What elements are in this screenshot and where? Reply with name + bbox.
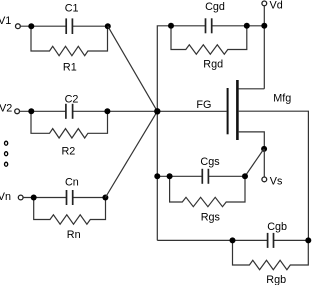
svg-text:V2: V2	[0, 102, 12, 114]
wire Cgs left	[157, 175, 202, 177]
svg-text:Vd: Vd	[270, 0, 283, 12]
junction dot Cgb right	[305, 237, 311, 243]
svg-text:FG: FG	[196, 99, 211, 111]
wire bottom rail to Cgb	[157, 239, 267, 241]
wire Cn right to node	[73, 197, 106, 199]
junction dot Cgd left	[168, 23, 174, 29]
wire Vd down to drain	[263, 6, 265, 89]
wire FG vertical rail	[157, 26, 171, 241]
wire Cgd right to Vd node	[212, 25, 265, 27]
svg-text:Vn: Vn	[0, 191, 11, 203]
resistor Rgd	[171, 26, 247, 54]
terminal Vs	[262, 177, 267, 182]
terminal V1	[16, 24, 21, 29]
svg-text:Vs: Vs	[270, 175, 283, 187]
terminal Vn	[18, 195, 23, 200]
terminal V2	[15, 109, 20, 114]
svg-text:V1: V1	[0, 15, 11, 27]
junction dot Cgb left	[230, 237, 236, 243]
svg-text:R2: R2	[61, 145, 75, 157]
wire diagonal rown to FG node	[105, 111, 157, 197]
junction dot Cgs right	[242, 173, 248, 179]
junction dot FG rail at Cgs	[154, 173, 160, 179]
wire source horizontal and down	[239, 132, 265, 149]
svg-text:Cn: Cn	[65, 177, 79, 189]
svg-text:Rgs: Rgs	[201, 212, 221, 224]
svg-text:Rn: Rn	[67, 229, 81, 241]
svg-text:C1: C1	[65, 2, 79, 14]
svg-text:R1: R1	[63, 61, 77, 73]
wire bulk horizontal and right rail	[239, 111, 309, 240]
wire V2 to C2 left	[20, 110, 66, 112]
wire C1 right to node	[72, 25, 107, 27]
svg-text:Mfg: Mfg	[273, 93, 291, 105]
wire drain horizontal	[239, 88, 265, 90]
junction dot row1 right	[105, 23, 111, 29]
capacitor Cn	[67, 190, 73, 205]
svg-text:C2: C2	[65, 93, 79, 105]
capacitor Cgs	[202, 169, 208, 184]
svg-text:Rgb: Rgb	[266, 274, 286, 285]
terminal Vd	[262, 1, 267, 6]
wire source dot to Vs	[263, 149, 265, 177]
resistor R1	[31, 26, 108, 56]
capacitor C2	[66, 104, 73, 119]
transistor Mfg channel bar	[236, 80, 239, 140]
wire diagonal row1 to FG node	[108, 26, 158, 111]
transistor Mfg gate bar	[227, 88, 229, 134]
capacitor Cgd	[206, 18, 212, 33]
wire Vn to Cn left	[23, 197, 66, 199]
junction dot Cgd right	[244, 23, 250, 29]
resistor Rgb	[233, 240, 309, 269]
junction dot row1 left	[28, 23, 34, 29]
capacitor Cgb	[268, 233, 274, 248]
junction dot Cgs left	[167, 173, 173, 179]
capacitor C1	[66, 18, 72, 34]
node FG	[154, 108, 160, 114]
resistor Rn	[34, 198, 106, 225]
junction dot source	[261, 146, 267, 152]
junction dot row2 right	[104, 108, 110, 114]
wire Cgs right	[208, 175, 245, 177]
wire Cgb right	[274, 239, 309, 241]
wire Cgd left	[171, 25, 206, 27]
junction dot row2 left	[28, 108, 34, 114]
junction dot rown right	[102, 195, 108, 201]
resistor Rgs	[170, 176, 245, 206]
wire C2 right to FG node and gate	[73, 110, 227, 112]
svg-text:Cgs: Cgs	[200, 156, 220, 168]
svg-text:Cgb: Cgb	[267, 221, 287, 233]
junction dot Vd	[261, 23, 267, 29]
svg-text:Cgd: Cgd	[205, 1, 225, 13]
resistor R2	[31, 111, 108, 138]
ellipsis dots between V2 and Vn	[5, 141, 8, 166]
wire diagonal source dot to Cgs right	[245, 149, 264, 176]
wire V1 to C1 left	[20, 25, 66, 27]
junction dot rown left	[31, 195, 37, 201]
svg-text:Rgd: Rgd	[203, 59, 223, 71]
